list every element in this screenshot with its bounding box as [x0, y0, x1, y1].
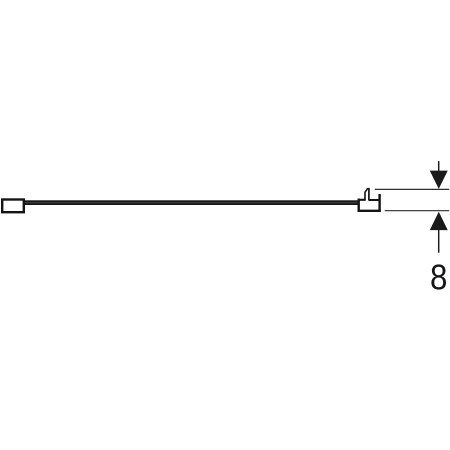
wire: profile right wall top cap: [378, 194, 380, 196]
node A: left end cap rectangle: [2, 200, 24, 213]
node: dimension value label 8: [431, 264, 446, 289]
wire: profile right wall: [378, 195, 380, 212]
wire: fin right edge: [368, 189, 370, 201]
wire: inner ledge to right wall: [369, 199, 380, 201]
wire: subtle lighter core of bar: [25, 201, 358, 204]
wire: profile top ledge: [358, 199, 366, 201]
wire: bottom dimension extension line: [385, 210, 450, 212]
wire: top dimension extension line: [375, 188, 449, 190]
node B: right profile body white interior: [358, 188, 381, 212]
wire: profile left wall: [358, 199, 360, 213]
wire: horizontal sealing strip bar: [23, 200, 360, 205]
node: bottom dimension arrow (pointing up): [430, 212, 448, 253]
node: top dimension arrow (pointing down): [430, 161, 448, 189]
wire: fin left edge: [365, 189, 367, 201]
wire: profile bottom edge: [358, 210, 381, 212]
wire: fin top edge: [367, 188, 370, 190]
